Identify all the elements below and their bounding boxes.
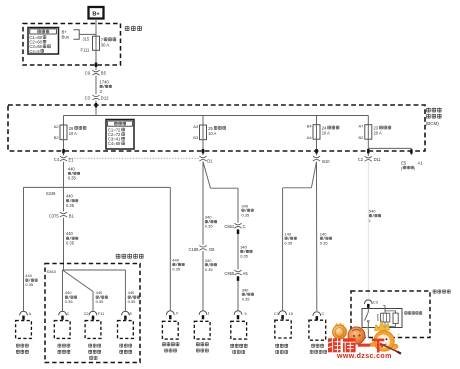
svg-text:0.35: 0.35: [241, 212, 250, 217]
connector C188/D8: [199, 245, 206, 247]
svg-text:140: 140: [285, 231, 292, 236]
svg-text:10 A: 10 A: [322, 130, 330, 135]
internal B+ bus wire: [64, 115, 369, 117]
svg-text:10 A: 10 A: [208, 131, 216, 136]
pin C4/E1: [60, 156, 67, 158]
wire 140 branch left from B10: [311, 162, 316, 188]
svg-text:440: 440: [96, 290, 103, 295]
wire fuse23 split to D11 and E5: [367, 139, 369, 156]
driver seat dashed enclosure: [45, 264, 140, 363]
connector C561 pin C: [234, 223, 241, 225]
wire fuse output down: [95, 50, 97, 70]
wire 440 to fold speed switch: [23, 187, 25, 311]
watermark (decorative): [328, 321, 401, 361]
fuse 23 "23号熔丝 20A" pins A7/B2: [365, 125, 372, 140]
svg-text:C: C: [243, 224, 246, 229]
wire S363 to seat adjuster switch: [63, 269, 126, 271]
label BCM name: [426, 108, 430, 113]
wire 440 below S248: [63, 187, 65, 211]
svg-text:10 A: 10 A: [69, 131, 77, 136]
svg-text:440: 440: [66, 194, 74, 199]
svg-text:B4: B4: [307, 124, 313, 129]
svg-text:0.35: 0.35: [320, 240, 329, 245]
svg-text:440: 440: [66, 231, 74, 236]
splice S248: [24, 186, 171, 188]
svg-text:C561: C561: [224, 224, 235, 229]
label driver seat: [116, 254, 121, 259]
svg-text:Bus: Bus: [62, 35, 69, 40]
svg-text:(BCM): (BCM): [426, 121, 439, 126]
component: memory seat switch pin C: [59, 311, 67, 315]
svg-text:440: 440: [68, 166, 76, 171]
wire 340 below C955: [237, 281, 239, 311]
svg-text:J15: J15: [83, 36, 90, 41]
connector legend table (fuse box): [28, 28, 59, 55]
label fuse box name: [125, 26, 130, 31]
fuse 25 "25号熔丝 10A" pins A3/B3: [200, 125, 207, 140]
connector C3/D12: [92, 95, 99, 97]
svg-text:C4: C4: [54, 157, 60, 162]
component: sunshade control module pin 1: [199, 311, 207, 315]
svg-text:C: C: [321, 311, 324, 316]
component: tilt steering wheel switch pin F: [166, 311, 174, 315]
svg-text:0.35: 0.35: [68, 176, 77, 181]
relay resistor: [385, 311, 396, 326]
svg-text:0.35: 0.35: [96, 299, 105, 304]
svg-text:E: E: [130, 311, 133, 316]
svg-text:A5: A5: [243, 271, 249, 276]
wires fuse outputs to BCM edge: [63, 140, 65, 156]
svg-text:20 A: 20 A: [374, 130, 382, 135]
svg-text:0.35: 0.35: [205, 224, 214, 229]
svg-text:B10: B10: [322, 159, 330, 164]
svg-text:D1: D1: [207, 158, 213, 163]
svg-text:A1: A1: [418, 160, 424, 165]
svg-text:F111: F111: [81, 48, 90, 53]
wire 440 below C375: [63, 218, 65, 270]
svg-text:1: 1: [208, 311, 210, 316]
connector body joint dotted line: [69, 157, 200, 159]
svg-text:140: 140: [320, 231, 327, 236]
component: comm control module pins C1/15: [279, 311, 287, 315]
svg-text:0.35: 0.35: [25, 282, 34, 287]
svg-text:0.35: 0.35: [172, 267, 181, 272]
pin B10: [313, 156, 320, 158]
svg-text:340: 340: [205, 258, 212, 263]
fuse box (dashed enclosure): [23, 24, 121, 66]
svg-text:440: 440: [25, 273, 32, 278]
component: transmission control module pin C: [313, 312, 321, 316]
svg-text:C955: C955: [224, 271, 235, 276]
wire 1740 RD/WH: [95, 76, 97, 95]
wire 340 below C188: [202, 251, 204, 311]
svg-text:D8: D8: [209, 247, 215, 252]
svg-text:www.dzsc.com: www.dzsc.com: [336, 353, 392, 360]
wire into BCM: [95, 101, 97, 116]
svg-text:340: 340: [240, 245, 247, 250]
svg-text:0.35: 0.35: [128, 299, 137, 304]
svg-text:B2: B2: [54, 135, 60, 140]
pin C2/D11: [365, 156, 372, 158]
connector C3 into relay: [364, 300, 372, 304]
wire 340 below C561: [237, 234, 239, 270]
svg-text:B+: B+: [92, 11, 100, 17]
connector C375/B1: [60, 212, 67, 214]
svg-text:B3: B3: [193, 135, 199, 140]
svg-text:0.35: 0.35: [65, 299, 74, 304]
label parking relay: [405, 311, 408, 314]
svg-text:340: 340: [242, 287, 249, 292]
svg-text:F11: F11: [98, 311, 104, 316]
svg-text:C: C: [67, 311, 70, 316]
svg-text:C3: C3: [373, 299, 378, 304]
svg-text:0.35: 0.35: [285, 240, 294, 245]
svg-text:E5: E5: [401, 160, 407, 165]
pin D1: [199, 156, 206, 158]
svg-text:15: 15: [289, 311, 293, 316]
svg-text:D12: D12: [101, 96, 109, 101]
node B+ battery terminal: [89, 7, 104, 19]
svg-text:0.35: 0.35: [240, 254, 249, 259]
svg-text:440: 440: [172, 258, 179, 263]
relay coil: [384, 306, 386, 313]
wire B+ to fuse box: [95, 19, 97, 37]
fuse 24 "24号熔丝 10A" pins B4/A4: [313, 125, 320, 140]
connector legend table (BCM): [106, 120, 134, 150]
component: memory seat control module pins C2/F11: [89, 311, 97, 315]
relay box (dashed enclosure): [351, 291, 430, 338]
wire B+Bus to fuse 7: [79, 33, 96, 35]
wire 440 to tilt steering switch: [169, 187, 171, 311]
svg-text:340: 340: [241, 203, 248, 208]
fuse 29 "29号熔丝 10A" pins A2/B2: [60, 125, 67, 140]
wire 440 RD/WH from E1: [63, 162, 65, 188]
svg-text:A7: A7: [358, 124, 364, 129]
component: seat adjuster switch pin E: [122, 311, 130, 315]
svg-text:B5: B5: [101, 71, 107, 76]
svg-text:30 A: 30 A: [101, 42, 110, 47]
svg-text:1740: 1740: [100, 79, 110, 84]
parking relay body: [362, 309, 402, 328]
svg-text:A2: A2: [54, 124, 60, 129]
svg-text:C3: C3: [85, 96, 91, 101]
svg-text:0.35: 0.35: [242, 296, 251, 301]
component: fold speed switch: [20, 311, 28, 315]
svg-text:C1: C1: [274, 311, 279, 316]
wire 540 from D11 (faint): [367, 162, 369, 297]
svg-text:A4: A4: [307, 135, 313, 140]
svg-text:C2: C2: [358, 157, 364, 162]
svg-text:A3: A3: [193, 124, 199, 129]
fuse F111 "7号熔丝 30A": [95, 34, 97, 50]
wire S363 to memory seat switch: [62, 270, 64, 311]
svg-text:9: 9: [244, 311, 246, 316]
svg-text:C9: C9: [85, 71, 91, 76]
svg-text:C188: C188: [189, 247, 200, 252]
svg-text:C4=68: C4=68: [108, 141, 121, 146]
label relay box name: [433, 289, 437, 293]
svg-text:C2: C2: [84, 311, 89, 316]
svg-text:B1: B1: [69, 214, 75, 219]
wire S363 diagonal to seat control module: [63, 270, 94, 292]
svg-text:S248: S248: [46, 191, 56, 196]
wire 340 from D1: [202, 162, 204, 245]
svg-text:0.35: 0.35: [66, 203, 75, 208]
connector C955 pin A5: [234, 270, 241, 272]
svg-text:B2: B2: [358, 135, 364, 140]
relay switch contact: [367, 308, 369, 312]
wire 140 straight from B10: [316, 162, 318, 311]
component: LF door switch assembly pin 9: [234, 311, 242, 315]
svg-text:0.35: 0.35: [205, 267, 214, 272]
svg-text:A: A: [29, 311, 32, 316]
svg-text:0.35: 0.35: [66, 240, 75, 245]
svg-text:540: 540: [369, 209, 376, 214]
svg-text:440: 440: [128, 290, 135, 295]
svg-text:C375: C375: [49, 214, 60, 219]
svg-text:D11: D11: [374, 157, 382, 162]
svg-text:C4=8: C4=8: [29, 49, 40, 54]
svg-text:440: 440: [65, 290, 72, 295]
svg-text:340: 340: [205, 215, 212, 220]
wire 340 branch from D1: [203, 162, 211, 189]
BCM body control module (dashed enclosure): [8, 105, 425, 151]
connector C9/B5: [92, 70, 99, 72]
svg-text:S363: S363: [47, 269, 57, 274]
